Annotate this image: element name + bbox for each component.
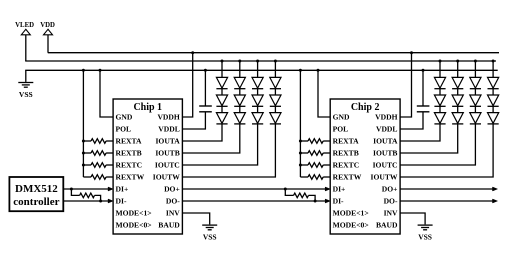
wire chain B segment (U1) [239, 106, 241, 112]
LED D1 (chain A, U1) [216, 77, 227, 88]
LED D13 (chain A, U2) [434, 77, 445, 88]
U2 pin label DI- [333, 197, 344, 206]
U2 pin label DO- [384, 197, 398, 206]
wire U1 VDDH to VDD rail [182, 53, 192, 117]
U2 pin label MODE<1> [333, 209, 369, 218]
svg-text:REXTW: REXTW [333, 173, 362, 182]
wire REXT bus (U2) [299, 70, 301, 177]
svg-text:INV: INV [166, 209, 180, 218]
svg-text:VDDL: VDDL [376, 125, 398, 134]
IC U1 box [113, 99, 182, 234]
svg-text:REXTB: REXTB [116, 149, 142, 158]
resistor REXTC (U2) [300, 163, 330, 168]
U2 pin label VDDL [376, 125, 398, 134]
capacitor C2 (VDDL decoupling, U2) [400, 70, 429, 129]
U2 pin label IOUTB [373, 149, 397, 158]
wire U1 GND to VSS rail [100, 70, 113, 117]
svg-text:controller: controller [13, 196, 59, 208]
svg-text:Chip 2: Chip 2 [351, 102, 380, 113]
svg-text:POL: POL [116, 125, 132, 134]
U2 pin label IOUTA [373, 137, 398, 146]
wire VLED rail to LED chain A (U1) [221, 61, 223, 77]
arrow into U1 DI+ [108, 187, 113, 191]
wire chain C segment (U2) [474, 89, 476, 95]
junction U2 GND on VSS rail [317, 69, 320, 72]
wire LED chain W to U1 IOUTW [182, 124, 275, 177]
LED D24 (chain W, U2) [488, 113, 499, 124]
LED D4 (chain B, U1) [234, 77, 245, 88]
svg-text:Chip 1: Chip 1 [133, 102, 162, 113]
svg-text:DO+: DO+ [164, 185, 180, 194]
junction U1 VDDH on VDD rail [191, 51, 194, 54]
U1 pin label MODE<1> [116, 209, 152, 218]
LED D6 (chain B, U1) [234, 113, 245, 124]
wire VSS rail [25, 69, 498, 71]
wire chain C segment (U1) [257, 106, 259, 112]
wire VLED rail to LED chain A (U2) [439, 61, 441, 77]
wire LED chain A to U2 IOUTA [400, 124, 440, 141]
resistor REXTC (U1) [83, 163, 113, 168]
junction REXT bus REXTB (U2) [299, 152, 302, 155]
junction REXT bus on VSS rail (U2) [299, 69, 302, 72]
svg-text:IOUTA: IOUTA [373, 137, 398, 146]
junction LED chain B (U1) on VLED rail [238, 60, 241, 63]
LED D17 (chain B, U2) [452, 95, 463, 106]
wire DMX DI+ to U1 [63, 188, 109, 190]
IC U2 box [330, 99, 400, 234]
wire VLED rail to LED chain B (U2) [457, 61, 459, 77]
U2 pin label MODE<0> [333, 221, 369, 230]
svg-text:DMX512: DMX512 [15, 183, 58, 195]
wire chain A segment (U1) [221, 89, 223, 95]
LED D8 (chain C, U1) [252, 95, 263, 106]
wire chain W segment (U2) [492, 106, 494, 112]
svg-text:VLED: VLED [15, 22, 34, 29]
junction LED chain W (U2) on VLED rail [492, 60, 495, 63]
U2 pin label POL [333, 125, 349, 134]
U1 pin label IOUTC [155, 161, 180, 170]
wire chain C segment (U1) [257, 89, 259, 95]
wire U2 DO- output [400, 200, 493, 202]
svg-text:REXTB: REXTB [333, 149, 359, 158]
wire VLED rail [25, 60, 496, 62]
svg-text:DI+: DI+ [116, 185, 129, 194]
resistor REXTA (U2) [300, 139, 330, 144]
junction REXT bus REXTB (U1) [82, 152, 85, 155]
svg-text:VDDH: VDDH [375, 113, 397, 122]
wire chain W segment (U1) [274, 106, 276, 112]
termination resistor (U2 DI pair) [285, 189, 315, 201]
U2 pin label INV [384, 209, 398, 218]
U1 pin label REXTW [116, 173, 145, 182]
arrow U2 DO+ output [493, 187, 498, 191]
power symbol VDD [40, 22, 55, 53]
wire U1 DO+ to U2 DI+ [182, 188, 326, 190]
resistor REXTB (U2) [300, 151, 330, 156]
svg-text:IOUTC: IOUTC [155, 161, 180, 170]
junction LED chain W (U1) on VLED rail [274, 60, 277, 63]
ground VSS (left) [18, 70, 33, 99]
U1 pin label REXTC [116, 161, 143, 170]
U1 pin label DI- [116, 197, 127, 206]
svg-text:IOUTW: IOUTW [153, 173, 180, 182]
capacitor C1 (VDDL decoupling, U1) [182, 70, 211, 129]
LED D2 (chain A, U1) [216, 95, 227, 106]
junction termination R on DI+ (U2) [284, 188, 287, 191]
wire chain C segment (U2) [474, 106, 476, 112]
svg-text:IOUTB: IOUTB [373, 149, 397, 158]
LED D10 (chain W, U1) [270, 77, 281, 88]
wire LED chain W to U2 IOUTW [400, 124, 493, 177]
LED D15 (chain A, U2) [434, 113, 445, 124]
wire VLED rail to LED chain C (U2) [474, 61, 476, 77]
wire U2 VDDH to VDD rail [400, 53, 411, 117]
LED D11 (chain W, U1) [270, 95, 281, 106]
LED D12 (chain W, U1) [270, 113, 281, 124]
svg-text:VSS: VSS [19, 90, 33, 99]
svg-text:REXTW: REXTW [116, 173, 145, 182]
U1 pin label IOUTW [153, 173, 180, 182]
power symbol VLED [15, 22, 34, 61]
wire LED chain A to U1 IOUTA [182, 124, 222, 141]
svg-text:VSS: VSS [418, 232, 432, 241]
svg-text:REXTC: REXTC [333, 161, 360, 170]
svg-text:GND: GND [333, 113, 350, 122]
LED D7 (chain C, U1) [252, 77, 263, 88]
LED D5 (chain B, U1) [234, 95, 245, 106]
U1 pin label DI+ [116, 185, 129, 194]
LED D20 (chain C, U2) [470, 95, 481, 106]
U1 pin label INV [166, 209, 180, 218]
U2 pin label BAUD [376, 221, 398, 230]
resistor REXTW (U2) [300, 175, 330, 180]
U1 pin label IOUTA [155, 137, 180, 146]
junction LED chain C (U1) on VLED rail [256, 60, 259, 63]
wire chain B segment (U2) [457, 106, 459, 112]
U1 pin label REXTB [116, 149, 142, 158]
junction C2 on VSS rail [422, 69, 425, 72]
wire VLED rail to LED chain B (U1) [239, 61, 241, 77]
U2 pin label REXTW [333, 173, 362, 182]
svg-text:VDD: VDD [40, 22, 55, 29]
svg-text:DO+: DO+ [382, 185, 398, 194]
ground VSS (U2 INV) [418, 225, 433, 241]
svg-text:MODE<1>: MODE<1> [116, 209, 152, 218]
junction LED chain A (U2) on VLED rail [439, 60, 442, 63]
wire LED chain B to U1 IOUTB [182, 124, 239, 153]
svg-text:REXTA: REXTA [333, 137, 360, 146]
U1 pin label IOUTB [155, 149, 179, 158]
wire DMX DI- to U1 [63, 200, 109, 202]
resistor REXTA (U1) [83, 139, 113, 144]
ground VSS (U1 INV) [202, 225, 217, 241]
svg-text:IOUTB: IOUTB [155, 149, 179, 158]
wire chain W segment (U1) [274, 89, 276, 95]
LED D21 (chain C, U2) [470, 113, 481, 124]
wire VLED rail to LED chain C (U1) [257, 61, 259, 77]
termination resistor (U1 DI pair) [71, 189, 100, 201]
svg-text:GND: GND [116, 113, 133, 122]
junction LED chain C (U2) on VLED rail [474, 60, 477, 63]
svg-text:REXTA: REXTA [116, 137, 143, 146]
wire U1 INV to ground [182, 213, 209, 224]
junction termination R on DI+ (U1) [70, 188, 73, 191]
wire VDD rail [48, 52, 499, 54]
wire chain B segment (U1) [239, 89, 241, 95]
wire LED chain C to U1 IOUTC [182, 124, 257, 165]
arrow into U2 DI- [325, 199, 330, 203]
U2 pin label DI+ [333, 185, 346, 194]
svg-text:VDDH: VDDH [157, 113, 179, 122]
svg-text:MODE<1>: MODE<1> [333, 209, 369, 218]
svg-text:MODE<0>: MODE<0> [116, 221, 152, 230]
LED D22 (chain W, U2) [488, 77, 499, 88]
wire U2 GND to VSS rail [318, 70, 330, 117]
junction REXT bus REXTC (U2) [299, 164, 302, 167]
svg-text:BAUD: BAUD [158, 221, 180, 230]
U1 pin label VDDL [158, 125, 180, 134]
U2 pin label IOUTC [373, 161, 398, 170]
svg-text:DO-: DO- [384, 197, 398, 206]
wire U2 DO+ output [400, 188, 493, 190]
wire VLED rail to LED chain W (U1) [274, 61, 276, 77]
U1 pin label REXTA [116, 137, 143, 146]
IC U2 label Chip 2 [351, 102, 380, 113]
U2 pin label VDDH [375, 113, 397, 122]
wire U1 DO- to U2 DI- [182, 200, 326, 202]
svg-text:VDDL: VDDL [158, 125, 180, 134]
svg-text:DI-: DI- [116, 197, 127, 206]
svg-text:IOUTA: IOUTA [155, 137, 180, 146]
LED D23 (chain W, U2) [488, 95, 499, 106]
U1 pin label GND [116, 113, 133, 122]
junction U1 GND on VSS rail [99, 69, 102, 72]
wire chain A segment (U1) [221, 106, 223, 112]
U2 pin label REXTA [333, 137, 360, 146]
arrow into U2 DI+ [325, 187, 330, 191]
U1 pin label DO+ [164, 185, 180, 194]
U1 pin label DO- [166, 197, 180, 206]
LED D3 (chain A, U1) [216, 113, 227, 124]
arrow U2 DO- output [493, 199, 498, 203]
IC U1 label Chip 1 [133, 102, 162, 113]
svg-text:POL: POL [333, 125, 349, 134]
resistor REXTW (U1) [83, 175, 113, 180]
junction REXT bus REXTC (U1) [82, 164, 85, 167]
U2 pin label DO+ [382, 185, 398, 194]
wire U2 INV to ground [400, 213, 425, 224]
junction LED chain B (U2) on VLED rail [456, 60, 459, 63]
junction termination R on DI- (U2) [314, 200, 317, 203]
wire LED chain C to U2 IOUTC [400, 124, 475, 165]
wire LED chain B to U2 IOUTB [400, 124, 458, 153]
wire chain A segment (U2) [439, 89, 441, 95]
svg-text:REXTC: REXTC [116, 161, 143, 170]
junction REXT bus REXTA (U2) [299, 140, 302, 143]
junction LED chain A (U1) on VLED rail [221, 60, 224, 63]
LED D16 (chain B, U2) [452, 77, 463, 88]
U1 pin label MODE<0> [116, 221, 152, 230]
U2 pin label REXTB [333, 149, 359, 158]
svg-text:DI+: DI+ [333, 185, 346, 194]
arrow into U1 DI- [108, 199, 113, 203]
U1 pin label POL [116, 125, 132, 134]
U2 pin label REXTC [333, 161, 360, 170]
junction REXT bus on VSS rail (U1) [82, 69, 85, 72]
DMX512 controller box [9, 177, 63, 211]
svg-text:IOUTW: IOUTW [370, 173, 397, 182]
wire chain B segment (U2) [457, 89, 459, 95]
wire VLED rail to LED chain W (U2) [492, 61, 494, 77]
svg-text:INV: INV [384, 209, 398, 218]
LED D14 (chain A, U2) [434, 95, 445, 106]
svg-text:BAUD: BAUD [376, 221, 398, 230]
resistor REXTB (U1) [83, 151, 113, 156]
junction REXT bus REXTA (U1) [82, 140, 85, 143]
U2 pin label IOUTW [370, 173, 397, 182]
LED D9 (chain C, U1) [252, 113, 263, 124]
LED D19 (chain C, U2) [470, 77, 481, 88]
U1 pin label BAUD [158, 221, 180, 230]
svg-text:IOUTC: IOUTC [373, 161, 398, 170]
LED D18 (chain B, U2) [452, 113, 463, 124]
U2 pin label GND [333, 113, 350, 122]
svg-text:VSS: VSS [203, 232, 217, 241]
junction termination R on DI- (U1) [99, 200, 102, 203]
svg-text:DO-: DO- [166, 197, 180, 206]
wire chain A segment (U2) [439, 106, 441, 112]
U1 pin label VDDH [157, 113, 179, 122]
wire REXT bus (U1) [82, 70, 84, 177]
svg-text:MODE<0>: MODE<0> [333, 221, 369, 230]
wire chain W segment (U2) [492, 89, 494, 95]
junction C1 on VSS rail [204, 69, 207, 72]
svg-text:DI-: DI- [333, 197, 344, 206]
junction U2 VDDH on VDD rail [410, 51, 413, 54]
